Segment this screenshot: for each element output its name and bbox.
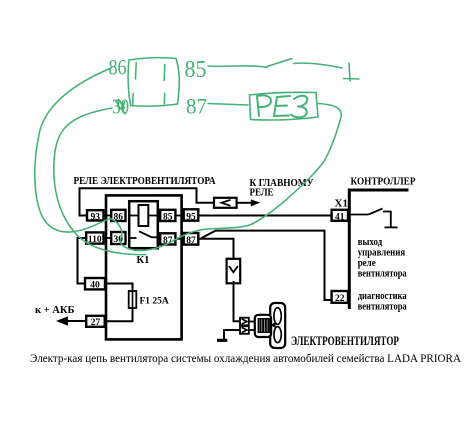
wire 87-87 [175,238,183,240]
pin 22 [332,291,348,304]
fan blade bottom [274,327,281,343]
svg-text:F1 25A: F1 25A [140,297,169,307]
connector X vertical [227,259,241,284]
label К ГЛАВНОМУ РЕЛЕ [250,177,314,199]
motor armature hatched [258,319,270,333]
svg-text:ЭЛЕКТРОВЕНТИЛЯТОР: ЭЛЕКТРОВЕНТИЛЯТОР [291,334,399,348]
pin 30 [111,232,125,245]
svg-text:К1: К1 [137,255,150,266]
green lasso outer [35,68,111,232]
svg-text:реле: реле [358,258,376,269]
controller outline [349,190,408,309]
svg-text:93: 93 [90,212,100,222]
svg-text:выход: выход [358,237,383,248]
motor housing [255,315,271,337]
mounting block outline [106,195,182,339]
pin 95 [184,209,199,222]
svg-text:диагностика: диагностика [358,291,407,302]
green РЕЗ box [250,92,319,120]
pin 27 [86,316,105,328]
wire 87 to fan branch [198,239,233,259]
controller switch [351,209,398,228]
svg-text:85: 85 [185,57,207,83]
svg-text:41: 41 [335,212,345,222]
green sketch relay box [128,58,179,106]
svg-text:вентилятора: вентилятора [358,302,407,313]
pin 41 [332,210,348,223]
svg-text:управления: управления [358,247,406,258]
wire diagnostics 87 to pin 22 [201,231,331,300]
fuse F1 [129,291,137,308]
svg-text:87: 87 [186,94,207,119]
wire 93 to main relay connector [80,188,215,215]
svg-text:РЕЛЕ: РЕЛЕ [250,187,274,199]
fan hub [270,322,275,328]
fuse wire [105,284,133,322]
label выход управления реле вентилятора [358,237,407,279]
fan motor wires [249,322,255,331]
svg-text:110: 110 [88,235,102,245]
green curve РЕЗ to schematic [70,104,341,251]
svg-text:22: 22 [335,294,345,304]
svg-text:вентилятора: вентилятора [358,268,407,279]
label диагностика вентилятора [358,291,407,313]
pin 85 [160,210,175,223]
svg-text:40: 40 [90,281,100,291]
svg-text:86: 86 [109,55,127,80]
pin 86 [111,210,125,223]
fan connector pin 2 [240,326,249,334]
relay coil [139,205,149,226]
ground [217,339,227,342]
svg-text:30: 30 [112,95,129,119]
svg-text:к + АКБ: к + АКБ [35,305,74,316]
connector to main relay [214,198,237,208]
green wire 87 to РЕЗ box [208,104,248,106]
svg-text:КОНТРОЛЛЕР: КОНТРОЛЛЕР [351,175,416,187]
fan shroud [270,303,285,348]
svg-text:РЕЛЕ ЭЛЕКТРОВЕНТИЛЯТОРА: РЕЛЕ ЭЛЕКТРОВЕНТИЛЯТОРА [74,175,216,187]
green label 30 [112,95,129,119]
svg-text:85: 85 [163,212,173,222]
arrow to main relay [237,199,261,206]
arrow to battery [56,316,86,325]
green switch line from 85 [208,59,359,82]
fan connector pin 1 [240,318,249,326]
svg-text:Электр-кая цепь вентилятора си: Электр-кая цепь вентилятора системы охла… [30,352,462,365]
svg-text:87: 87 [186,236,196,246]
wire 110 to 40 [78,238,87,284]
relay K1 body [129,201,158,248]
svg-text:95: 95 [186,212,196,222]
wire connector to fan [234,281,241,321]
ground wire [224,330,240,339]
pin 87 inner [160,233,175,246]
pin 93 [87,210,104,222]
pin 40 [85,278,105,291]
wire 85-95 [175,215,183,217]
relay switch contact [129,231,158,238]
svg-text:27: 27 [91,318,101,328]
wire 93-86 [104,215,112,217]
wire 95 to pin 41 [198,215,331,217]
green label РЕЗ [257,95,307,117]
green lasso inner [54,108,146,255]
pin 110 [86,232,103,244]
coil wires [129,215,158,217]
wire 110-30 [104,237,112,239]
svg-text:Х1: Х1 [335,197,348,209]
pin 87 outer [184,233,199,246]
fan blade top [274,308,281,325]
